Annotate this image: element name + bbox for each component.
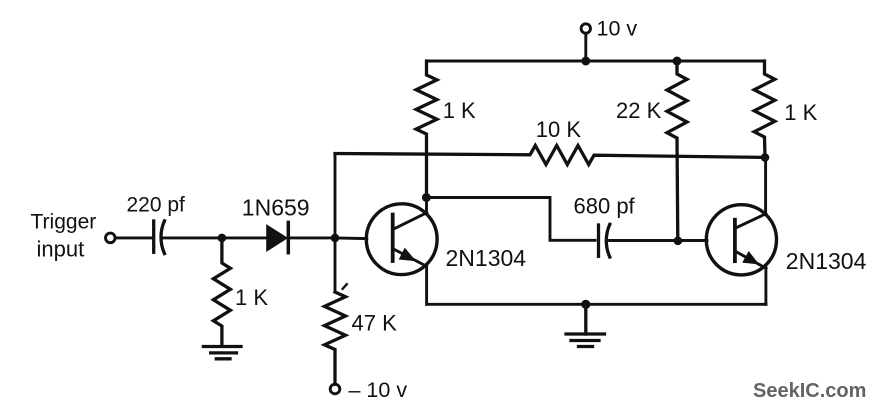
label 1 K (left) <box>443 98 476 123</box>
top +10v bus wire <box>427 60 765 63</box>
label 2N1304 (Q2) <box>786 248 867 274</box>
svg-text:1N659: 1N659 <box>242 195 310 221</box>
resistor R5 1 K (input pull-down) <box>213 238 230 346</box>
label Trigger input <box>31 211 97 262</box>
capacitor C2 680 pf <box>599 224 610 257</box>
node: ground junction <box>581 300 590 309</box>
node: Q2 base junction <box>674 237 683 246</box>
wire: capacitor to diode anode <box>164 236 267 239</box>
trigger input terminal <box>106 233 116 243</box>
wire: diode cathode to Q1 base node <box>290 236 336 239</box>
svg-text:– 10 v: – 10 v <box>349 378 408 402</box>
node: input junction <box>218 234 227 243</box>
node: 10v bus junction <box>581 57 590 66</box>
ground (input side) <box>203 347 241 359</box>
svg-text:47 K: 47 K <box>352 311 398 336</box>
svg-text:input: input <box>37 237 85 262</box>
svg-text:1 K: 1 K <box>443 98 476 123</box>
label 220 pf <box>127 194 186 217</box>
label 10 v <box>597 17 638 41</box>
svg-text:1 K: 1 K <box>235 285 268 310</box>
+10v terminal <box>581 24 590 61</box>
node: Q1 base junction <box>331 234 340 243</box>
resistor R3 1 K (right collector load) <box>754 61 775 158</box>
svg-text:22 K: 22 K <box>616 98 662 123</box>
label 1 K (right) <box>784 100 817 125</box>
resistor R2 22 K <box>667 61 687 241</box>
watermark SeekIC.com <box>753 380 866 402</box>
label 680 pf <box>574 194 636 219</box>
label -10 v <box>349 378 408 402</box>
wire: Q1 base node to transistor <box>335 236 367 240</box>
resistor R4 10 K with cross-coupling wire <box>335 146 765 165</box>
transistor Q1 2N1304 <box>366 197 437 304</box>
label 1N659 <box>242 195 310 221</box>
label 10 K <box>536 117 582 142</box>
node: junction right 1K / 10K / Q2 collector <box>761 153 770 162</box>
-10v terminal <box>330 384 340 394</box>
wire: vertical from 10K wire down through base node to 47K <box>334 154 337 293</box>
transistor Q2 2N1304 <box>706 158 776 305</box>
svg-text:220 pf: 220 pf <box>127 194 186 217</box>
svg-text:2N1304: 2N1304 <box>786 248 867 274</box>
label 1 K (input) <box>235 285 268 310</box>
svg-text:1 K: 1 K <box>784 100 817 125</box>
node: Q1 collector junction <box>422 193 431 202</box>
svg-text:10 K: 10 K <box>536 117 582 142</box>
resistor R6 47 K <box>325 292 346 384</box>
resistor R1 1 K (left collector load) <box>416 61 437 198</box>
wire: 680pf to Q2 base <box>610 239 708 242</box>
diode D1 1N659 <box>267 222 288 252</box>
svg-text:10 v: 10 v <box>597 17 638 41</box>
label 2N1304 (Q1) <box>446 245 527 271</box>
svg-text:680 pf: 680 pf <box>574 194 636 219</box>
ground (center) <box>566 304 605 346</box>
wire: bottom emitter rail <box>427 303 766 306</box>
label 47 K <box>352 311 398 336</box>
svg-text:SeekIC.com: SeekIC.com <box>753 380 866 402</box>
capacitor C1 220 pf <box>154 221 165 254</box>
svg-text:Trigger: Trigger <box>31 211 97 234</box>
svg-text:2N1304: 2N1304 <box>446 245 527 271</box>
wire: input terminal to capacitor <box>115 236 152 239</box>
label 22 K <box>616 98 662 123</box>
wire: Q1 collector to 680pf <box>426 198 595 241</box>
node: 22 K top junction <box>673 57 682 66</box>
stray tick mark <box>343 284 347 289</box>
